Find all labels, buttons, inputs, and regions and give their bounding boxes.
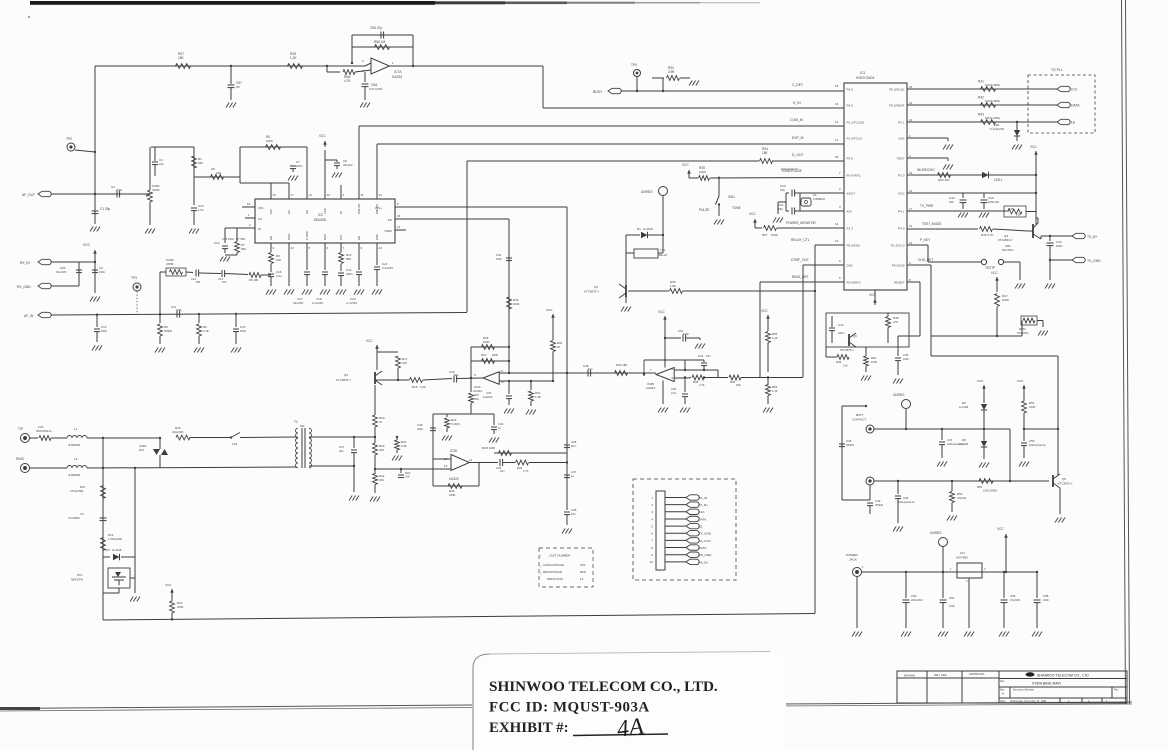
- svg-text:T1: T1: [294, 420, 298, 424]
- svg-text:R16: R16: [412, 385, 418, 389]
- svg-text:2.2K: 2.2K: [420, 385, 426, 389]
- svg-text:TP2: TP2: [66, 137, 72, 141]
- svg-text:TEST: TEST: [897, 156, 905, 160]
- svg-text:VCC: VCC: [1030, 145, 1037, 149]
- svg-text:APPROVAL: APPROVAL: [969, 672, 985, 676]
- svg-text:TX_B+: TX_B+: [699, 503, 709, 507]
- svg-text:27K: 27K: [893, 320, 898, 324]
- svg-text:R55: R55: [772, 332, 778, 336]
- svg-text:VSS: VSS: [898, 136, 904, 140]
- svg-text:FU1: FU1: [38, 425, 44, 429]
- svg-text:RING: RING: [16, 457, 24, 461]
- svg-text:10K: 10K: [276, 258, 281, 262]
- svg-text:KTA1504-Y: KTA1504-Y: [998, 238, 1013, 242]
- svg-text:TX_PWR: TX_PWR: [920, 204, 934, 208]
- svg-text:11: 11: [835, 138, 838, 142]
- svg-text:D5: D5: [962, 401, 966, 405]
- svg-text:VCC: VCC: [83, 243, 91, 247]
- svg-text:Q2: Q2: [594, 285, 598, 289]
- svg-text:VCC: VCC: [997, 527, 1004, 531]
- svg-text:18K: 18K: [762, 151, 769, 155]
- svg-text:R6 10K: R6 10K: [249, 278, 258, 282]
- svg-text:C13: C13: [214, 241, 220, 245]
- svg-text:10K(1/16W): 10K(1/16W): [985, 116, 1000, 120]
- svg-text:ERC: ERC: [375, 234, 379, 240]
- svg-text:LL4148: LL4148: [112, 548, 122, 552]
- svg-text:5.1K(F): 5.1K(F): [451, 422, 460, 426]
- svg-text:12: 12: [397, 225, 401, 229]
- svg-text:RX_B+: RX_B+: [20, 261, 31, 265]
- svg-text:CHG_DET: CHG_DET: [918, 258, 933, 262]
- svg-text:3.3K: 3.3K: [401, 444, 407, 448]
- svg-text:CLK: CLK: [699, 510, 706, 514]
- svg-text:100n: 100n: [99, 270, 106, 274]
- svg-text:VCC: VCC: [1017, 379, 1024, 383]
- svg-text:100n: 100n: [683, 332, 689, 336]
- svg-text:47K: 47K: [402, 361, 407, 365]
- svg-text:UNREG: UNREG: [930, 531, 942, 535]
- svg-text:TONE/PULSE: TONE/PULSE: [781, 169, 803, 173]
- svg-text:DRAWN: DRAWN: [904, 674, 915, 678]
- svg-text:EB: EB: [305, 210, 309, 214]
- svg-text:BUSY: BUSY: [593, 90, 603, 94]
- svg-text:VCC: VCC: [898, 191, 905, 195]
- svg-text:P5 3/SCLK: P5 3/SCLK: [889, 87, 905, 91]
- svg-text:TX_GND: TX_GND: [1087, 259, 1101, 263]
- svg-text:IN: IN: [258, 227, 261, 231]
- svg-text:JUMPER: JUMPER: [68, 473, 81, 477]
- svg-text:15p: 15p: [780, 188, 785, 192]
- svg-text:GB: GB: [357, 236, 361, 240]
- svg-text:C_DET: C_DET: [792, 83, 803, 87]
- svg-text:22K: 22K: [379, 448, 384, 452]
- svg-text:24: 24: [909, 189, 913, 193]
- svg-text:R52: R52: [977, 485, 983, 489]
- svg-text:CP1-: CP1-: [258, 206, 264, 210]
- svg-text:21: 21: [909, 118, 913, 122]
- svg-text:19: 19: [909, 224, 913, 228]
- svg-text:LE: LE: [699, 525, 703, 529]
- svg-text:C13 100n: C13 100n: [222, 237, 235, 241]
- svg-text:LS1: LS1: [232, 442, 238, 446]
- svg-text:C25: C25: [671, 387, 677, 391]
- svg-text:3.58MHz: 3.58MHz: [813, 197, 826, 201]
- svg-text:100K: 100K: [1002, 298, 1009, 302]
- svg-text:VCC: VCC: [977, 379, 984, 383]
- svg-text:RESISTANCE: RESISTANCE: [543, 570, 562, 574]
- svg-text:C47: C47: [947, 438, 953, 442]
- svg-text:10n: 10n: [500, 469, 505, 473]
- svg-text:P1 1/TCLO0: P1 1/TCLO0: [847, 120, 864, 124]
- svg-text:R45: R45: [1008, 207, 1014, 211]
- svg-text:P0 2/K30: P0 2/K30: [892, 263, 905, 267]
- svg-text:R58: R58: [580, 570, 586, 574]
- svg-text:R23: R23: [451, 418, 457, 422]
- svg-text:125K: 125K: [449, 493, 456, 497]
- svg-text:1.2K: 1.2K: [772, 336, 778, 340]
- svg-text:R30 18K: R30 18K: [616, 363, 627, 367]
- svg-text:GND: GND: [287, 234, 291, 240]
- svg-text:P0 3/KS0: P0 3/KS0: [847, 243, 860, 247]
- svg-text:100n: 100n: [903, 357, 909, 361]
- svg-text:C54: C54: [949, 596, 955, 600]
- svg-text:TIP: TIP: [18, 427, 23, 431]
- svg-text:16: 16: [273, 193, 277, 197]
- svg-text:15p: 15p: [778, 207, 783, 211]
- svg-text:C55: C55: [1010, 594, 1016, 598]
- svg-text:10K: 10K: [405, 475, 410, 479]
- svg-text:X/N: X/N: [847, 209, 852, 213]
- svg-text:LL4148: LL4148: [959, 405, 968, 409]
- svg-text:DATA: DATA: [1071, 104, 1080, 108]
- svg-text:1n: 1n: [498, 426, 502, 430]
- svg-text:41(1/2W): 41(1/2W): [172, 430, 184, 434]
- svg-text:C61: C61: [580, 563, 586, 567]
- svg-text:RING_DET: RING_DET: [792, 275, 809, 279]
- svg-text:20: 20: [327, 193, 331, 197]
- svg-text:R49: R49: [836, 360, 842, 364]
- svg-text:C44: C44: [838, 323, 844, 327]
- svg-text:R2C: R2C: [481, 353, 487, 357]
- svg-text:IC3D: IC3D: [450, 449, 458, 453]
- svg-text:P5 1: P5 1: [898, 120, 905, 124]
- svg-text:100n: 100n: [176, 308, 182, 312]
- svg-text:TONE: TONE: [732, 206, 741, 210]
- svg-text:C53: C53: [911, 594, 917, 598]
- svg-text:20: 20: [835, 155, 839, 159]
- svg-text:56K: 56K: [198, 161, 203, 165]
- svg-text:P1 0/TCLO: P1 0/TCLO: [847, 136, 863, 140]
- svg-text:Q4: Q4: [344, 373, 348, 377]
- svg-text:DATA: DATA: [699, 517, 708, 521]
- svg-text:14: 14: [469, 458, 473, 462]
- svg-text:CONTACT: CONTACT: [852, 418, 866, 422]
- svg-text:47: 47: [379, 420, 383, 424]
- svg-text:C50: C50: [1029, 439, 1035, 443]
- svg-text:OPEN: OPEN: [846, 443, 854, 447]
- svg-text:RELAY_CTL: RELAY_CTL: [791, 238, 810, 242]
- svg-text:4A: 4A: [615, 713, 645, 743]
- svg-text:10: 10: [291, 246, 295, 250]
- svg-text:C48: C48: [903, 496, 909, 500]
- svg-text:OSC: OSC: [323, 234, 327, 240]
- svg-text:INDUCTOR: INDUCTOR: [547, 577, 564, 581]
- svg-text:RELAY: RELAY: [658, 253, 668, 257]
- svg-text:P1 2/CLO: P1 2/CLO: [891, 243, 905, 247]
- svg-text:C31: C31: [496, 253, 502, 257]
- svg-text:18: 18: [835, 84, 839, 88]
- svg-text:100K: 100K: [1029, 405, 1036, 409]
- svg-text:KTC3875-Y: KTC3875-Y: [840, 348, 854, 352]
- svg-text:EMUTE: EMUTE: [375, 204, 379, 214]
- svg-text:RC8 100K: RC8 100K: [482, 446, 495, 450]
- svg-text:INUSE/CHG: INUSE/CHG: [917, 168, 935, 172]
- svg-text:220n: 220n: [838, 331, 845, 335]
- svg-text:SHINWOO TELECOM CO., LTD.: SHINWOO TELECOM CO., LTD.: [489, 678, 718, 695]
- svg-text:47(1W): 47(1W): [957, 496, 966, 500]
- svg-text:47K(1/2W): 47K(1/2W): [70, 489, 83, 493]
- svg-text:C56 47p: C56 47p: [370, 26, 382, 30]
- svg-text:15: 15: [247, 202, 251, 206]
- svg-text:THRO: THRO: [384, 229, 393, 233]
- svg-text:Document Number: Document Number: [1013, 689, 1034, 692]
- svg-text:BUSY: BUSY: [699, 546, 707, 550]
- svg-text:C33: C33: [486, 391, 492, 395]
- svg-text:TP4: TP4: [631, 63, 637, 67]
- svg-text:21n: 21n: [159, 162, 164, 166]
- svg-text:L3: L3: [580, 577, 584, 581]
- svg-text:33u16V: 33u16V: [343, 163, 353, 167]
- svg-text:100n: 100n: [949, 604, 955, 608]
- svg-text:100K: 100K: [483, 340, 490, 344]
- svg-text:1.5K(1/2W): 1.5K(1/2W): [108, 537, 122, 541]
- svg-text:221: 221: [139, 448, 144, 452]
- svg-text:160K: 160K: [513, 302, 520, 306]
- svg-text:47KB: 47KB: [152, 188, 159, 192]
- svg-text:RESET: RESET: [894, 280, 904, 284]
- svg-text:600: 600: [300, 424, 305, 428]
- svg-text:10K(1/16W): 10K(1/16W): [983, 489, 997, 493]
- svg-text:10K(1/16W): 10K(1/16W): [985, 83, 1000, 87]
- svg-text:C58: C58: [1043, 594, 1049, 598]
- svg-text:33u/10V: 33u/10V: [56, 270, 67, 274]
- svg-text:47u/16V: 47u/16V: [1010, 598, 1020, 602]
- svg-text:2.2u/16V: 2.2u/16V: [382, 266, 393, 270]
- svg-text:P4 2: P4 2: [847, 87, 854, 91]
- svg-text:P4 0: P4 0: [847, 103, 854, 107]
- svg-text:47u/250V: 47u/250V: [68, 516, 80, 520]
- svg-text:XOUT: XOUT: [847, 191, 856, 195]
- svg-text:4.7K: 4.7K: [344, 79, 351, 83]
- svg-text:TESTP: TESTP: [985, 266, 995, 270]
- svg-text:PAGING: PAGING: [1017, 331, 1029, 335]
- svg-text:47KB: 47KB: [166, 262, 173, 266]
- svg-text:VCC: VCC: [749, 212, 756, 216]
- svg-text:JACK: JACK: [849, 558, 858, 562]
- svg-text:100K: 100K: [266, 139, 273, 143]
- svg-text:R32: R32: [557, 341, 563, 345]
- svg-text:R40: R40: [730, 380, 736, 384]
- svg-text:C24: C24: [698, 354, 704, 358]
- svg-text:KTC3875-Y: KTC3875-Y: [584, 290, 599, 294]
- svg-text:JUMPER: JUMPER: [68, 443, 81, 447]
- svg-text:POWER_MONITOR: POWER_MONITOR: [786, 221, 816, 225]
- svg-text:C45: C45: [903, 353, 909, 357]
- svg-text:VCC: VCC: [319, 134, 326, 138]
- svg-text:13: 13: [379, 193, 383, 197]
- svg-text:KTC3875-Y: KTC3875-Y: [1058, 482, 1073, 486]
- svg-text:DTMF_OUT: DTMF_OUT: [791, 258, 809, 262]
- svg-text:22: 22: [909, 101, 913, 105]
- svg-text:IC7A: IC7A: [394, 70, 402, 74]
- svg-text:R48: R48: [693, 380, 699, 384]
- svg-text:DET CEF: DET CEF: [934, 673, 947, 677]
- svg-text:VCC: VCC: [366, 339, 373, 343]
- svg-text:TEST_MODE: TEST_MODE: [922, 222, 941, 226]
- svg-text:UNREG: UNREG: [893, 393, 905, 397]
- svg-text:ST80A BASE MAIN: ST80A BASE MAIN: [1032, 682, 1061, 686]
- svg-text:15K: 15K: [736, 383, 741, 387]
- svg-text:100K: 100K: [771, 233, 778, 237]
- svg-text:180k: 180k: [492, 353, 499, 357]
- svg-text:1.5K: 1.5K: [535, 395, 541, 399]
- svg-text:15: 15: [909, 171, 913, 175]
- svg-text:C-DOF: C-DOF: [305, 231, 309, 240]
- svg-text:220n: 220n: [296, 164, 303, 168]
- svg-text:100n: 100n: [1056, 244, 1063, 248]
- svg-text:KTC3875-Y: KTC3875-Y: [336, 378, 351, 382]
- svg-text:250V/250mA: 250V/250mA: [36, 429, 52, 433]
- svg-text:AF_OUT: AF_OUT: [22, 193, 35, 197]
- svg-text:R27: R27: [474, 393, 480, 397]
- svg-text:NE417F8: NE417F8: [71, 578, 83, 582]
- svg-text:EB: EB: [269, 236, 273, 240]
- svg-text:P4 1: P4 1: [898, 209, 905, 213]
- svg-text:100n(ceramic): 100n(ceramic): [1029, 443, 1046, 447]
- svg-text:CLK: CLK: [1071, 88, 1078, 92]
- svg-text:13: 13: [444, 464, 448, 468]
- svg-text:IC1: IC1: [860, 71, 865, 75]
- svg-text:4n: 4n: [236, 85, 240, 89]
- svg-text:15n: 15n: [222, 280, 227, 284]
- svg-text:R46 4.7K: R46 4.7K: [981, 233, 994, 237]
- svg-text:13: 13: [909, 241, 913, 245]
- svg-text:22n: 22n: [339, 449, 344, 453]
- svg-text:33u/16V=: 33u/16V=: [1002, 248, 1014, 252]
- svg-text:18: 18: [397, 214, 401, 218]
- svg-text:RX_GND: RX_GND: [17, 285, 31, 289]
- svg-text:D_IN: D_IN: [793, 101, 801, 105]
- svg-text:10n: 10n: [571, 444, 576, 448]
- svg-text:R56 1M: R56 1M: [374, 40, 386, 44]
- svg-text:10: 10: [650, 560, 654, 564]
- svg-text:P5 0: P5 0: [847, 156, 854, 160]
- svg-text:UNREG: UNREG: [641, 190, 653, 194]
- svg-text:KA324: KA324: [392, 75, 402, 79]
- svg-text:56K: 56K: [241, 247, 246, 251]
- svg-text:2K: 2K: [557, 345, 560, 349]
- svg-text:RX_B+: RX_B+: [699, 560, 709, 564]
- svg-text:10n: 10n: [588, 367, 593, 371]
- svg-text:3.9K: 3.9K: [668, 70, 675, 74]
- svg-text:33u/16V: 33u/16V: [293, 301, 304, 305]
- svg-text:220n: 220n: [346, 272, 353, 276]
- svg-text:100n: 100n: [496, 257, 502, 261]
- svg-text:10u/16V: 10u/16V: [483, 395, 493, 399]
- svg-text:P0 0/INT0: P0 0/INT0: [847, 280, 861, 284]
- svg-text:P1 3: P1 3: [847, 226, 854, 230]
- svg-text:LED1: LED1: [994, 178, 1002, 182]
- svg-text:100n: 100n: [1043, 598, 1049, 602]
- svg-text:VCC: VCC: [761, 309, 768, 313]
- svg-text:22K: 22K: [1016, 213, 1021, 217]
- svg-text:LAST NUMBER: LAST NUMBER: [549, 554, 571, 558]
- svg-text:1n: 1n: [571, 474, 575, 478]
- svg-text:P5 3/SDAT: P5 3/SDAT: [889, 103, 904, 107]
- svg-text:100K: 100K: [871, 360, 877, 364]
- svg-text:C2: C2: [111, 185, 115, 189]
- svg-text:EXP_M: EXP_M: [792, 136, 804, 140]
- svg-text:LL4148: LL4148: [959, 442, 968, 446]
- svg-text:100n: 100n: [116, 188, 123, 192]
- svg-text:10n: 10n: [571, 512, 576, 516]
- svg-text:VCC: VCC: [991, 271, 998, 275]
- svg-text:VCC: VCC: [658, 310, 665, 314]
- svg-text:KA324: KA324: [646, 386, 655, 390]
- svg-text:4.7u/16V: 4.7u/16V: [346, 301, 357, 305]
- svg-text:3.3n: 3.3n: [671, 391, 677, 395]
- svg-text:R43: R43: [978, 113, 984, 117]
- svg-text:POWER: POWER: [846, 553, 858, 557]
- svg-text:VCC: VCC: [323, 208, 327, 214]
- svg-text:TO PLL: TO PLL: [1051, 68, 1063, 72]
- svg-text:CAPACITANCE: CAPACITANCE: [543, 563, 564, 567]
- svg-text:P4 3: P4 3: [898, 226, 905, 230]
- svg-text:LL4148: LL4148: [643, 227, 653, 231]
- svg-text:5.1K: 5.1K: [203, 329, 209, 333]
- svg-text:100n: 100n: [101, 329, 108, 333]
- svg-text:AF_IN: AF_IN: [699, 496, 708, 500]
- svg-text:PULSE: PULSE: [699, 208, 709, 212]
- svg-text:OPEN: OPEN: [875, 503, 883, 507]
- svg-text:15K: 15K: [178, 56, 185, 60]
- svg-text:C3: C3: [80, 512, 84, 516]
- svg-text:R54: R54: [772, 385, 778, 389]
- svg-text:O6: O6: [211, 167, 215, 171]
- svg-text:VCC: VCC: [682, 163, 689, 167]
- svg-text:CPI: CPI: [339, 235, 343, 240]
- svg-text:12: 12: [835, 120, 839, 124]
- svg-text:56K: 56K: [346, 257, 351, 261]
- svg-text:R24: R24: [405, 471, 411, 475]
- svg-text:CMUTE: CMUTE: [357, 204, 361, 214]
- svg-text:COM_M: COM_M: [790, 118, 803, 122]
- svg-text:14: 14: [835, 222, 839, 226]
- svg-text:100K: 100K: [699, 170, 706, 174]
- svg-text:KIA7805: KIA7805: [956, 556, 968, 560]
- svg-text:DI: DI: [339, 211, 343, 214]
- svg-text:BATT: BATT: [856, 413, 864, 417]
- svg-text:D6: D6: [962, 438, 966, 442]
- svg-text:C1 30p: C1 30p: [100, 207, 111, 211]
- svg-text:SW1: SW1: [728, 195, 735, 199]
- svg-text:D1: D1: [637, 227, 641, 231]
- svg-text:19: 19: [379, 246, 383, 250]
- svg-text:D_OUT: D_OUT: [792, 153, 804, 157]
- svg-text:R29: R29: [517, 466, 523, 470]
- svg-text:Date:: Date:: [1000, 700, 1006, 703]
- svg-text:PC1: PC1: [77, 573, 83, 577]
- svg-text:220n: 220n: [417, 427, 424, 431]
- svg-text:DBL505: DBL505: [314, 218, 326, 222]
- svg-text:15n: 15n: [706, 354, 711, 358]
- svg-text:EPI: EPI: [269, 209, 273, 214]
- svg-text:1.8K: 1.8K: [670, 284, 676, 288]
- svg-text:R57: R57: [762, 233, 768, 237]
- svg-text:100n: 100n: [240, 329, 247, 333]
- svg-text:P_KEY: P_KEY: [920, 238, 931, 242]
- svg-text:17: 17: [291, 193, 295, 197]
- svg-text:2.2u: 2.2u: [276, 274, 282, 278]
- svg-text:R42: R42: [978, 96, 984, 100]
- svg-text:1.2K: 1.2K: [772, 389, 778, 393]
- svg-text:Wednesday, November 11, 1998: Wednesday, November 11, 1998: [1010, 700, 1047, 703]
- svg-text:10n: 10n: [949, 200, 954, 204]
- svg-text:100n(ceramic): 100n(ceramic): [898, 500, 915, 504]
- svg-text:AF_OUT: AF_OUT: [699, 539, 711, 543]
- svg-text:100u16V: 100u16V: [988, 200, 999, 204]
- svg-text:16: 16: [835, 102, 839, 106]
